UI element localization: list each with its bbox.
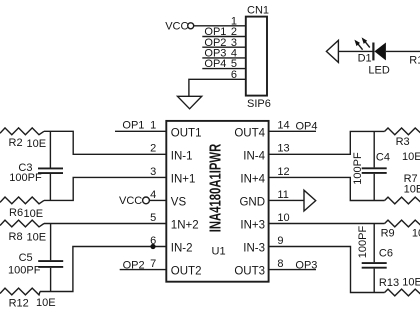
svg-text:10E: 10E bbox=[24, 208, 44, 220]
svg-text:4: 4 bbox=[150, 189, 156, 201]
wire R8 to U1 pin 5 bbox=[44, 223, 166, 225]
svg-text:R12: R12 bbox=[9, 298, 29, 310]
wire OP2 to U1 pin 7 bbox=[120, 269, 167, 271]
svg-text:IN-4: IN-4 bbox=[243, 150, 265, 162]
wire OP3 to CN1 pin 4 bbox=[202, 57, 246, 59]
connector CN1 bbox=[246, 17, 267, 96]
svg-text:10: 10 bbox=[277, 212, 289, 224]
svg-text:10E: 10E bbox=[402, 277, 420, 289]
off-page arrow GND bbox=[304, 190, 316, 211]
svg-text:IN-3: IN-3 bbox=[243, 243, 265, 255]
svg-text:R2: R2 bbox=[9, 137, 23, 149]
wire U1 pin 9 to R13 bbox=[269, 247, 385, 293]
wire arrow to D1 bbox=[338, 50, 373, 52]
svg-text:10E: 10E bbox=[27, 231, 47, 243]
svg-text:D1: D1 bbox=[358, 52, 372, 64]
node VCC (CN1 pin 1) bbox=[165, 21, 194, 33]
svg-text:IN+1: IN+1 bbox=[171, 173, 196, 185]
svg-text:8: 8 bbox=[277, 258, 283, 270]
wire OP4 to CN1 pin 5 bbox=[202, 68, 246, 70]
wire OP1 to U1 pin 1 bbox=[115, 130, 166, 132]
ground bbox=[178, 96, 202, 109]
resistor R7 10E bbox=[385, 173, 420, 204]
resistor R6 10E bbox=[0, 197, 44, 220]
svg-text:5: 5 bbox=[150, 212, 156, 224]
capacitor C3 100PF bbox=[9, 131, 63, 200]
wire VCC to U1 pin 4 bbox=[149, 199, 166, 201]
svg-text:2: 2 bbox=[150, 143, 156, 155]
svg-text:R8: R8 bbox=[9, 231, 23, 243]
junction on pin 6 wire bbox=[150, 244, 155, 249]
svg-text:OUT3: OUT3 bbox=[234, 266, 265, 278]
svg-text:10E: 10E bbox=[402, 151, 420, 163]
svg-text:1N+2: 1N+2 bbox=[171, 220, 199, 232]
wire OP2 to CN1 pin 3 bbox=[202, 46, 246, 48]
svg-text:LED: LED bbox=[368, 65, 389, 77]
svg-text:OUT4: OUT4 bbox=[234, 127, 265, 139]
capacitor C5 100PF bbox=[8, 224, 63, 292]
wire R2 to U1 pin 2 bbox=[44, 131, 166, 154]
off-page arrow (LED anode) bbox=[326, 40, 338, 62]
LED D1 bbox=[354, 37, 389, 76]
svg-text:VCC: VCC bbox=[119, 195, 142, 207]
svg-text:100PF: 100PF bbox=[357, 226, 369, 259]
svg-text:C6: C6 bbox=[379, 248, 393, 260]
svg-text:GND: GND bbox=[239, 196, 265, 208]
svg-text:13: 13 bbox=[277, 143, 289, 155]
svg-text:OP4: OP4 bbox=[296, 120, 318, 132]
svg-text:IN-2: IN-2 bbox=[171, 243, 193, 255]
wire R6 to U1 pin 3 bbox=[44, 177, 166, 200]
svg-text:10E: 10E bbox=[412, 228, 420, 240]
svg-text:100PF: 100PF bbox=[352, 152, 364, 185]
svg-text:VCC: VCC bbox=[165, 21, 188, 33]
svg-text:100PF: 100PF bbox=[9, 172, 42, 184]
resistor R13 10E bbox=[379, 277, 420, 296]
svg-text:R6: R6 bbox=[9, 207, 23, 219]
wire U1 pin 11 (GND) to off-page arrow bbox=[269, 199, 304, 201]
svg-text:1: 1 bbox=[150, 120, 156, 132]
wire U1 pin 10 to R9 bbox=[269, 223, 385, 225]
svg-text:12: 12 bbox=[277, 166, 289, 178]
wire U1 pin 8 to OP3 bbox=[269, 269, 316, 271]
resistor R8 10E bbox=[0, 220, 46, 243]
wire R12 to U1 pin 6 bbox=[40, 247, 166, 292]
svg-text:9: 9 bbox=[277, 235, 283, 247]
capacitor C4 100PF bbox=[352, 131, 390, 200]
svg-text:10E: 10E bbox=[36, 297, 56, 309]
svg-text:10E: 10E bbox=[27, 138, 47, 150]
svg-text:C4: C4 bbox=[376, 152, 390, 164]
svg-text:11: 11 bbox=[277, 189, 288, 201]
svg-text:R3: R3 bbox=[396, 136, 410, 148]
svg-text:IN+3: IN+3 bbox=[240, 220, 265, 232]
svg-text:IN-1: IN-1 bbox=[171, 150, 193, 162]
svg-text:SIP6: SIP6 bbox=[247, 98, 271, 110]
node VCC (U1 pin 4) bbox=[119, 195, 149, 207]
wire OP1 to CN1 pin 2 bbox=[202, 36, 246, 38]
capacitor C6 100PF bbox=[357, 224, 393, 293]
wire U1 pin 13 to R3 bbox=[269, 131, 385, 154]
resistor R2 10E bbox=[0, 128, 46, 150]
resistor R12 10E bbox=[0, 288, 56, 310]
resistor R3 10E bbox=[385, 128, 420, 163]
resistor R9 10E bbox=[381, 220, 420, 240]
svg-text:R13: R13 bbox=[379, 277, 399, 289]
svg-text:10E: 10E bbox=[404, 184, 420, 196]
op-amp U1 INA4180A1IPWR bbox=[166, 121, 268, 282]
svg-text:CN1: CN1 bbox=[247, 4, 269, 16]
svg-text:U1: U1 bbox=[212, 245, 226, 257]
svg-text:100PF: 100PF bbox=[8, 265, 41, 277]
svg-text:7: 7 bbox=[150, 258, 156, 270]
wire CN1 pin 6 to ground bbox=[189, 79, 246, 96]
svg-text:VS: VS bbox=[171, 196, 187, 208]
svg-text:OUT1: OUT1 bbox=[171, 127, 202, 139]
svg-text:3: 3 bbox=[150, 166, 156, 178]
svg-text:OP1: OP1 bbox=[122, 120, 144, 132]
wire D1 to R1 bbox=[386, 50, 420, 52]
svg-text:C5: C5 bbox=[19, 252, 33, 264]
svg-text:R9: R9 bbox=[381, 228, 395, 240]
svg-text:IN+4: IN+4 bbox=[240, 173, 265, 185]
wire U1 pin 14 to OP4 bbox=[269, 130, 316, 132]
svg-text:OUT2: OUT2 bbox=[171, 266, 202, 278]
svg-text:6: 6 bbox=[231, 69, 237, 81]
svg-text:R1: R1 bbox=[409, 55, 420, 67]
wire U1 pin 12 to R7 bbox=[269, 177, 385, 200]
svg-text:INA4180A1IPWR: INA4180A1IPWR bbox=[207, 143, 224, 232]
svg-text:14: 14 bbox=[277, 120, 289, 132]
wire VCC to CN1 pin 1 bbox=[194, 25, 246, 27]
